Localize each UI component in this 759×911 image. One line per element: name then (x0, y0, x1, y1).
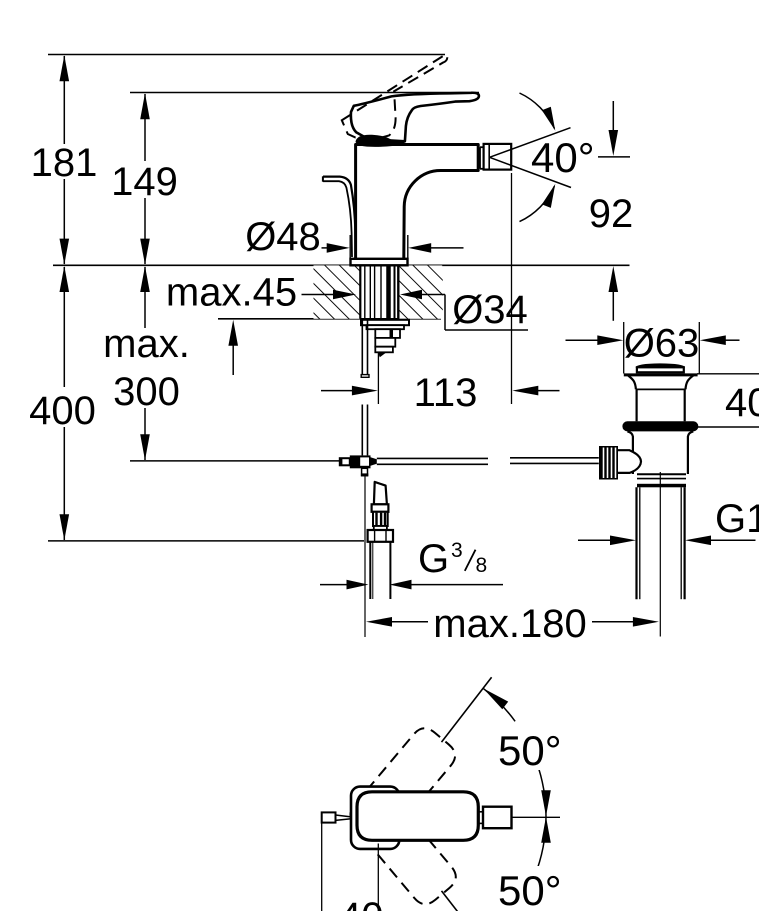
drain knob knurled (599, 446, 641, 480)
drain o-ring seal (622, 421, 698, 431)
dim 40 right edge (697, 374, 759, 427)
hatched counter right block (399, 265, 443, 318)
dim max.180 (366, 602, 659, 646)
wire counter bottom line (218, 318, 441, 320)
drain valve body (627, 431, 693, 487)
tee junction fitting (339, 455, 376, 476)
dim 50 degree upper (442, 677, 551, 816)
handle ball base black (356, 135, 405, 147)
dim 50 degree lower (442, 817, 551, 911)
svg-text:92: 92 (589, 192, 634, 236)
extension line supply center (364, 477, 366, 638)
svg-text:3: 3 (451, 539, 463, 562)
mounting nut stack (361, 320, 409, 357)
svg-text:G: G (418, 537, 449, 581)
svg-text:113: 113 (414, 371, 478, 415)
handle plan swivel down dashed (346, 785, 461, 909)
wire max.300 level line (130, 460, 341, 462)
svg-text:40: 40 (725, 381, 759, 425)
svg-text:max.45: max.45 (166, 271, 297, 315)
faucet base plate elevation (351, 259, 408, 266)
flexible hose left segment (377, 458, 488, 464)
dim max.300 vertical (103, 266, 190, 460)
flexible hose right segment (510, 458, 599, 464)
dim 92 (589, 101, 634, 321)
extension line aerator tip (511, 173, 513, 404)
dim Ø34 leader (400, 288, 528, 332)
drain popup waste flange (624, 363, 698, 421)
label 50 deg upper (494, 728, 570, 770)
faucet base plan (351, 787, 399, 849)
hatched counter left block (314, 265, 361, 318)
wire counter top line (53, 264, 630, 266)
dim G3/8 (320, 537, 503, 589)
supply pipe lower (362, 405, 367, 456)
wire 400 bottom line (48, 540, 364, 542)
dim 400 vertical (29, 266, 96, 540)
svg-text:50°: 50° (498, 867, 562, 911)
drain center line (659, 472, 661, 637)
supply pipe upper (361, 319, 369, 377)
svg-text:Ø63: Ø63 (624, 322, 700, 366)
svg-text:Ø48: Ø48 (245, 215, 321, 259)
dim 113 (321, 353, 560, 415)
plan center line (512, 816, 561, 818)
wire 149 reference line (130, 92, 479, 94)
aerator plan (478, 807, 511, 829)
svg-text:40°: 40° (531, 134, 595, 181)
faucet body elevation (356, 145, 479, 259)
dim 40 bottom partial (322, 824, 384, 911)
supply tail pipe (370, 542, 390, 599)
drain tail pipe (637, 487, 685, 599)
dim Ø48 (245, 215, 463, 265)
dim 40 degree spray angle (490, 93, 595, 222)
threaded shank (360, 266, 398, 319)
dim 181 vertical (31, 55, 98, 264)
svg-text:50°: 50° (498, 727, 562, 774)
label 50 deg lower (494, 866, 570, 911)
handle lever elevation (351, 93, 479, 142)
svg-text:max.180: max.180 (433, 602, 586, 646)
handle raised position dashed (342, 55, 448, 140)
handle plan (357, 792, 478, 841)
check valve G3/8 (368, 482, 393, 542)
dim max.45 (166, 271, 356, 376)
svg-text:G1¼: G1¼ (715, 497, 759, 541)
dim 149 vertical (111, 93, 178, 264)
svg-text:149: 149 (111, 160, 178, 204)
side spray tube elevation (323, 176, 356, 257)
svg-text:40: 40 (339, 895, 384, 911)
dim Ø63 (566, 322, 740, 374)
svg-text:8: 8 (476, 554, 488, 577)
svg-text:Ø34: Ø34 (452, 288, 528, 332)
aerator elevation (480, 144, 511, 170)
svg-text:400: 400 (29, 389, 96, 433)
wire top reference line 181 level (48, 54, 445, 56)
side spray nozzle plan (322, 812, 351, 822)
svg-text:max.: max. (103, 322, 190, 366)
dim G1 (578, 497, 759, 545)
svg-text:181: 181 (31, 141, 98, 185)
svg-text:300: 300 (113, 370, 180, 414)
handle plan swivel up dashed (345, 723, 460, 847)
